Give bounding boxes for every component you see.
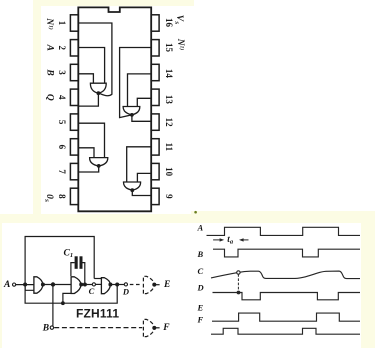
svg-text:A: A	[45, 44, 55, 51]
svg-text:4: 4	[57, 95, 67, 100]
svg-text:Q: Q	[45, 94, 55, 101]
svg-text:A: A	[197, 222, 204, 232]
svg-text:16: 16	[164, 18, 174, 28]
svg-text:5: 5	[57, 120, 67, 125]
svg-text:11: 11	[164, 143, 174, 152]
svg-text:15: 15	[164, 43, 174, 53]
svg-text:E: E	[163, 280, 170, 290]
svg-text:N1): N1)	[175, 38, 186, 51]
svg-text:6: 6	[57, 145, 67, 150]
svg-text:D: D	[197, 283, 204, 293]
svg-text:FZH111: FZH111	[76, 307, 119, 321]
svg-text:13: 13	[164, 95, 174, 105]
svg-text:D: D	[122, 287, 129, 297]
svg-text:ta: ta	[227, 234, 234, 246]
svg-text:A: A	[3, 280, 10, 290]
svg-text:VS: VS	[173, 15, 184, 24]
svg-text:F: F	[162, 323, 170, 333]
svg-text:14: 14	[164, 69, 174, 79]
svg-text:E: E	[197, 302, 204, 312]
svg-text:C: C	[89, 286, 95, 296]
svg-text:B: B	[45, 68, 55, 75]
svg-text:3: 3	[57, 70, 67, 75]
svg-text:0S: 0S	[43, 194, 54, 202]
svg-text:12: 12	[164, 118, 174, 128]
svg-text:2: 2	[57, 46, 67, 51]
svg-text:C: C	[198, 266, 204, 276]
svg-text:B: B	[42, 323, 49, 333]
svg-text:1: 1	[57, 21, 67, 26]
svg-text:C1: C1	[64, 248, 74, 259]
svg-text:7: 7	[57, 169, 67, 174]
svg-text:9: 9	[164, 194, 174, 199]
svg-text:F: F	[197, 314, 204, 324]
svg-text:8: 8	[57, 194, 67, 199]
svg-text:10: 10	[164, 167, 174, 177]
svg-text:B: B	[197, 249, 204, 259]
svg-text:N1): N1)	[44, 17, 55, 30]
